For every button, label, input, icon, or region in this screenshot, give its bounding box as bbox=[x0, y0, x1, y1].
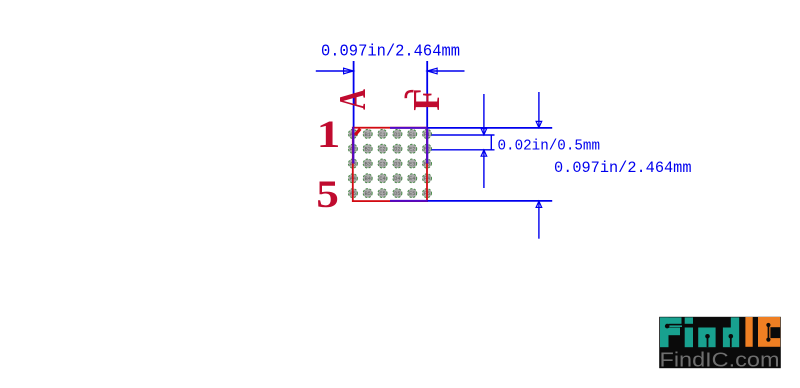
extension line column F (vertical blue) bbox=[426, 61, 428, 128]
height dimension lower leader bbox=[538, 202, 540, 239]
bottom edge extension overlap (purple) bbox=[390, 200, 427, 202]
svg-text:C5: C5 bbox=[379, 191, 385, 197]
svg-text:E4: E4 bbox=[409, 176, 415, 182]
pin 1 chamfer marker bbox=[355, 129, 360, 135]
ball C1 bbox=[378, 129, 387, 138]
svg-text:B1: B1 bbox=[365, 132, 371, 138]
svg-text:D1: D1 bbox=[394, 132, 400, 138]
ball E5 bbox=[408, 189, 417, 198]
ball A5 bbox=[348, 189, 357, 198]
FindIC logo letter I bbox=[745, 317, 752, 347]
FindIC logo letter n bbox=[698, 328, 715, 348]
svg-text:FindIC.com: FindIC.com bbox=[660, 350, 780, 372]
ball A1 bbox=[348, 129, 357, 138]
top dimension line left segment bbox=[316, 70, 353, 72]
svg-text:0.02in/0.5mm: 0.02in/0.5mm bbox=[498, 137, 601, 154]
bottom edge extension line blue segment bbox=[427, 200, 552, 202]
svg-text:C4: C4 bbox=[379, 176, 385, 182]
ball A2 bbox=[348, 144, 357, 153]
ball D5 bbox=[393, 189, 402, 198]
ball E2 bbox=[408, 144, 417, 153]
ball D3 bbox=[393, 159, 402, 168]
svg-text:5: 5 bbox=[316, 173, 339, 216]
svg-text:C2: C2 bbox=[379, 147, 385, 153]
ball F1 bbox=[423, 129, 432, 138]
svg-text:E2: E2 bbox=[409, 147, 415, 153]
top edge extension overlap (purple) bbox=[390, 127, 427, 129]
column label F serif hook bbox=[406, 91, 414, 98]
FindIC logo letter F bbox=[660, 317, 682, 347]
svg-text:F: F bbox=[406, 89, 448, 111]
FindIC logo background bbox=[659, 317, 781, 368]
pitch dimension upper down arrowhead bbox=[481, 129, 487, 135]
ball A4 bbox=[348, 174, 357, 183]
ball F4 bbox=[423, 174, 432, 183]
svg-text:B4: B4 bbox=[365, 176, 371, 182]
FindIC logo letter i bbox=[685, 317, 693, 347]
svg-text:B3: B3 bbox=[365, 161, 371, 167]
connector tick between row lines bbox=[490, 135, 492, 150]
ball D4 bbox=[393, 174, 402, 183]
ball A3 bbox=[348, 159, 357, 168]
ball B2 bbox=[363, 144, 372, 153]
ball B3 bbox=[363, 159, 372, 168]
FindIC logo letter C bbox=[758, 317, 780, 347]
svg-text:0.097in/2.464mm: 0.097in/2.464mm bbox=[554, 159, 692, 177]
extension line column A overlap on package edge (purple) bbox=[352, 127, 354, 164]
top dimension line right segment bbox=[428, 70, 465, 72]
package outline (red square) bbox=[353, 128, 427, 201]
ball D2 bbox=[393, 144, 402, 153]
ball C3 bbox=[378, 159, 387, 168]
svg-text:D3: D3 bbox=[394, 161, 400, 167]
ball B1 bbox=[363, 129, 372, 138]
svg-text:C1: C1 bbox=[379, 132, 385, 138]
extension line column A (vertical blue) bbox=[353, 61, 355, 128]
top dimension left arrowhead bbox=[344, 68, 354, 74]
ball C4 bbox=[378, 174, 387, 183]
svg-text:B5: B5 bbox=[365, 191, 371, 197]
ball B5 bbox=[363, 189, 372, 198]
ball F3 bbox=[423, 159, 432, 168]
pitch dimension lower up arrowhead bbox=[481, 150, 487, 156]
svg-text:1: 1 bbox=[317, 113, 341, 156]
ball row 1 extension line bbox=[432, 134, 495, 136]
svg-text:D4: D4 bbox=[394, 176, 400, 182]
svg-text:D5: D5 bbox=[394, 191, 400, 197]
svg-text:E5: E5 bbox=[409, 191, 415, 197]
pitch dimension lower leader bbox=[483, 150, 485, 188]
svg-text:B2: B2 bbox=[365, 147, 371, 153]
ball C5 bbox=[378, 189, 387, 198]
top edge extension line blue segment bbox=[427, 127, 552, 129]
height dimension upper down arrowhead bbox=[536, 121, 542, 127]
height dimension upper leader bbox=[538, 92, 540, 127]
ball row 2 extension line bbox=[432, 149, 495, 151]
ball E1 bbox=[408, 129, 417, 138]
svg-text:E1: E1 bbox=[409, 132, 415, 138]
extension line column F overlap on package edge (purple) bbox=[426, 127, 428, 164]
ball F2 bbox=[423, 144, 432, 153]
svg-text:A: A bbox=[332, 89, 374, 110]
ball F5 bbox=[423, 189, 432, 198]
ball E4 bbox=[408, 174, 417, 183]
top dimension right arrowhead bbox=[427, 68, 437, 74]
ball E3 bbox=[408, 159, 417, 168]
FindIC logo letter d bbox=[723, 317, 739, 347]
height dimension lower up arrowhead bbox=[536, 201, 542, 207]
pitch dimension upper leader bbox=[483, 94, 485, 134]
svg-text:E3: E3 bbox=[409, 161, 415, 167]
svg-text:C3: C3 bbox=[379, 161, 385, 167]
ball C2 bbox=[378, 144, 387, 153]
ball B4 bbox=[363, 174, 372, 183]
ball D1 bbox=[393, 129, 402, 138]
svg-text:0.097in/2.464mm: 0.097in/2.464mm bbox=[321, 42, 460, 61]
svg-text:D2: D2 bbox=[394, 147, 400, 153]
